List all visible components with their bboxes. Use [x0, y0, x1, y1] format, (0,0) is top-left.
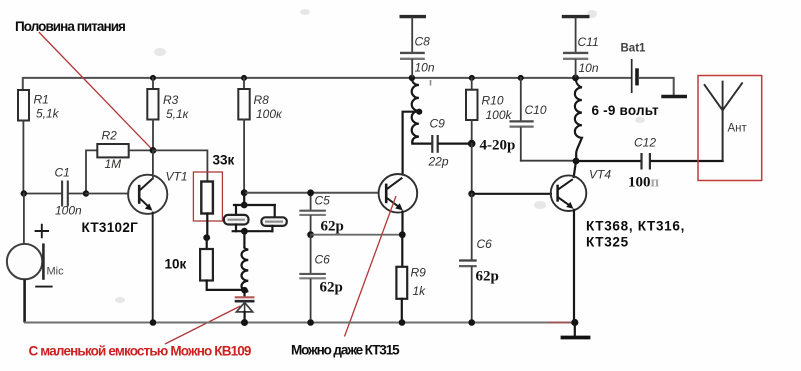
svg-text:R8: R8 — [254, 93, 270, 107]
inductor L1 (oscillator coil) — [412, 79, 419, 143]
svg-text:С маленькой емкостью Можно КВ1: С маленькой емкостью Можно КВ109 — [29, 344, 251, 359]
wire crystal top bus — [234, 204, 275, 206]
red box around antenna — [698, 76, 762, 181]
capacitor C11 — [562, 17, 599, 78]
svg-text:10к: 10к — [165, 257, 187, 272]
inductor L2 (output coil) — [575, 79, 582, 161]
wire node to mic — [23, 194, 25, 244]
node coil / 10k / varicap — [241, 287, 248, 294]
svg-text:5,1к: 5,1к — [166, 107, 190, 121]
resistor R2 — [86, 129, 153, 194]
node C5/C6/VT2 emitter wire — [307, 231, 314, 238]
svg-text:R3: R3 — [163, 93, 179, 107]
svg-text:R2: R2 — [102, 129, 118, 143]
svg-text:6 -9 вольт: 6 -9 вольт — [592, 103, 660, 118]
svg-text:100n: 100n — [55, 204, 82, 218]
resistor R3 — [147, 78, 189, 150]
wire C10 bottom to L2 node — [521, 160, 576, 162]
node crystals top / R8 — [241, 189, 248, 196]
node C1 left / mic — [21, 190, 27, 196]
svg-text:4-20p: 4-20p — [480, 138, 516, 154]
capacitor C1 — [24, 166, 86, 218]
svg-text:Mic: Mic — [47, 266, 65, 278]
node L2/C10/C12/VT4 collector — [573, 158, 580, 165]
microphone Mic — [7, 224, 64, 287]
svg-text:R1: R1 — [34, 93, 49, 107]
svg-text:C1: C1 — [55, 166, 70, 180]
capacitor C5 — [299, 193, 344, 235]
wire VT1 collector — [152, 150, 154, 178]
wire crystal node to C5 and VT2 base — [244, 192, 378, 194]
transistor VT2 — [379, 174, 418, 213]
node rail C6 — [307, 319, 314, 326]
svg-text:Ант: Ант — [728, 123, 748, 135]
wire VT4 emitter to ground — [573, 210, 575, 323]
wire battery to ground — [639, 78, 674, 95]
svg-text:VT1: VT1 — [166, 170, 188, 184]
svg-text:C12: C12 — [634, 136, 656, 150]
red arrow to varicap — [165, 306, 240, 344]
node on rail at R3 — [150, 75, 156, 81]
wire bus to coil — [243, 231, 245, 247]
node VT1 collector / R2 / R3 — [150, 147, 157, 154]
transistor VT4 — [551, 161, 612, 211]
red arrow to VT1 collector node — [39, 32, 152, 149]
wire bottom ground rail — [24, 322, 575, 324]
capacitor C12 — [576, 136, 722, 191]
svg-text:1М: 1М — [105, 157, 122, 171]
antenna — [704, 81, 748, 161]
node crystal top bus — [241, 202, 248, 209]
transistor VT1 — [86, 170, 188, 214]
wire R10 column to VT4 base — [471, 144, 473, 194]
svg-text:100k: 100k — [486, 108, 513, 122]
node 4-20p — [468, 140, 476, 148]
node rail varicap — [241, 319, 248, 326]
wire node to 33k resistor — [153, 150, 207, 181]
resistor R10 — [466, 78, 513, 144]
svg-text:КТ325: КТ325 — [586, 235, 629, 250]
wire C5 bottom to VT2 emitter — [311, 234, 402, 236]
wire tap to VT2 collector — [403, 112, 418, 174]
node VT2 emitter — [399, 231, 406, 238]
svg-text:100п: 100п — [628, 174, 660, 190]
node on rail at R8 — [241, 75, 247, 81]
svg-text:62p: 62p — [320, 280, 343, 296]
coil tap node — [416, 109, 422, 115]
svg-text:62p: 62p — [476, 269, 499, 285]
capacitor C8 — [400, 17, 435, 86]
inductor L3 (varicap coil) — [242, 248, 249, 297]
wire top supply rail — [23, 78, 631, 90]
svg-text:VT4: VT4 — [589, 168, 611, 182]
svg-text:33к: 33к — [213, 153, 235, 168]
crystal ZQ1 — [224, 205, 249, 231]
svg-text:10n: 10n — [415, 61, 435, 75]
svg-text:C9: C9 — [430, 117, 446, 131]
wire VT4 base — [472, 193, 551, 195]
wire VT2 emitter — [401, 212, 403, 235]
wire R1 to C1 node — [22, 121, 24, 194]
capacitor C10 — [510, 78, 547, 161]
resistor 33k — [201, 153, 234, 214]
node VT4 base / C6b — [468, 190, 475, 197]
varicap VD1 — [235, 297, 255, 322]
resistor R1 — [18, 90, 60, 121]
node on rail at C11/L2 — [572, 75, 579, 82]
ground (top right) — [661, 95, 687, 99]
svg-text:КТ3102Г: КТ3102Г — [82, 220, 139, 235]
node on rail at C10 — [518, 75, 524, 81]
capacitor C9 — [412, 117, 470, 169]
svg-text:C11: C11 — [578, 35, 599, 49]
capacitor C6 — [299, 235, 343, 323]
svg-text:22p: 22p — [428, 155, 449, 169]
wire crystal bottom bus — [233, 230, 273, 232]
svg-text:62p: 62p — [321, 219, 344, 235]
svg-text:R9: R9 — [411, 266, 427, 280]
red arrow to VT2 — [345, 196, 397, 337]
svg-text:Половина питания: Половина питания — [15, 19, 125, 34]
svg-text:C6: C6 — [477, 237, 493, 251]
wire mic to ground rail — [23, 279, 26, 322]
wire 33k to node — [206, 214, 208, 238]
svg-text:КТ368, КТ316,: КТ368, КТ316, — [586, 219, 685, 234]
battery Bat1 — [621, 43, 647, 94]
resistor 10k — [165, 238, 245, 290]
wire node down to crystal bus — [243, 193, 245, 205]
node on rail at C8/L1 — [409, 75, 415, 81]
wire VT1 emitter to rail — [152, 212, 154, 323]
svg-text:5,1k: 5,1k — [36, 107, 60, 121]
svg-text:Можно даже КТ315: Можно даже КТ315 — [291, 343, 400, 358]
node C1 right / R2 / VT1 base — [83, 190, 89, 196]
svg-text:100к: 100к — [256, 107, 283, 121]
node on rail at R10 — [469, 75, 475, 81]
node 33k/10k — [203, 234, 210, 241]
capacitor C6b — [459, 194, 499, 323]
svg-text:C10: C10 — [525, 103, 547, 117]
svg-text:Bat1: Bat1 — [621, 43, 647, 55]
node rail C6b — [468, 319, 475, 326]
red box around 33k — [193, 172, 222, 221]
node rail R9 — [399, 319, 406, 326]
svg-text:10n: 10n — [579, 61, 599, 75]
svg-text:1k: 1k — [413, 284, 427, 298]
svg-text:C6: C6 — [315, 253, 331, 267]
svg-text:C5: C5 — [315, 194, 331, 208]
node rail VT1 emitter — [150, 319, 157, 326]
resistor R9 — [396, 235, 426, 323]
node crystal bottom bus — [241, 228, 248, 235]
node rail VT4 emitter — [571, 319, 578, 326]
crystal ZQ2 — [261, 205, 286, 231]
svg-text:C8: C8 — [415, 35, 431, 49]
ground (bottom) — [561, 323, 591, 338]
node C5 top / VT2 base wire — [307, 189, 314, 196]
resistor R8 — [238, 78, 283, 193]
svg-text:R10: R10 — [482, 94, 504, 108]
